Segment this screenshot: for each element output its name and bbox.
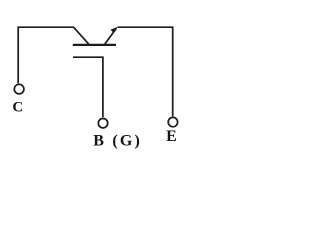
- terminal C circle: [14, 84, 24, 94]
- terminal E circle: [168, 117, 177, 126]
- transistor Q1 base bar: [73, 44, 116, 46]
- svg-text:C: C: [12, 99, 23, 115]
- transistor Q1 emitter arrowhead: [111, 27, 118, 34]
- gate plate G: [73, 57, 103, 117]
- wire collector lead: left vertical + top horizontal: [18, 27, 74, 83]
- transistor Q1 collector diagonal: [74, 27, 89, 44]
- transistor Q1 emitter diagonal: [104, 29, 116, 45]
- svg-text:E: E: [166, 128, 177, 145]
- terminal B circle: [98, 119, 107, 128]
- svg-text:B (G): B (G): [93, 133, 142, 150]
- wire emitter lead: top horizontal + right vertical: [118, 27, 173, 116]
